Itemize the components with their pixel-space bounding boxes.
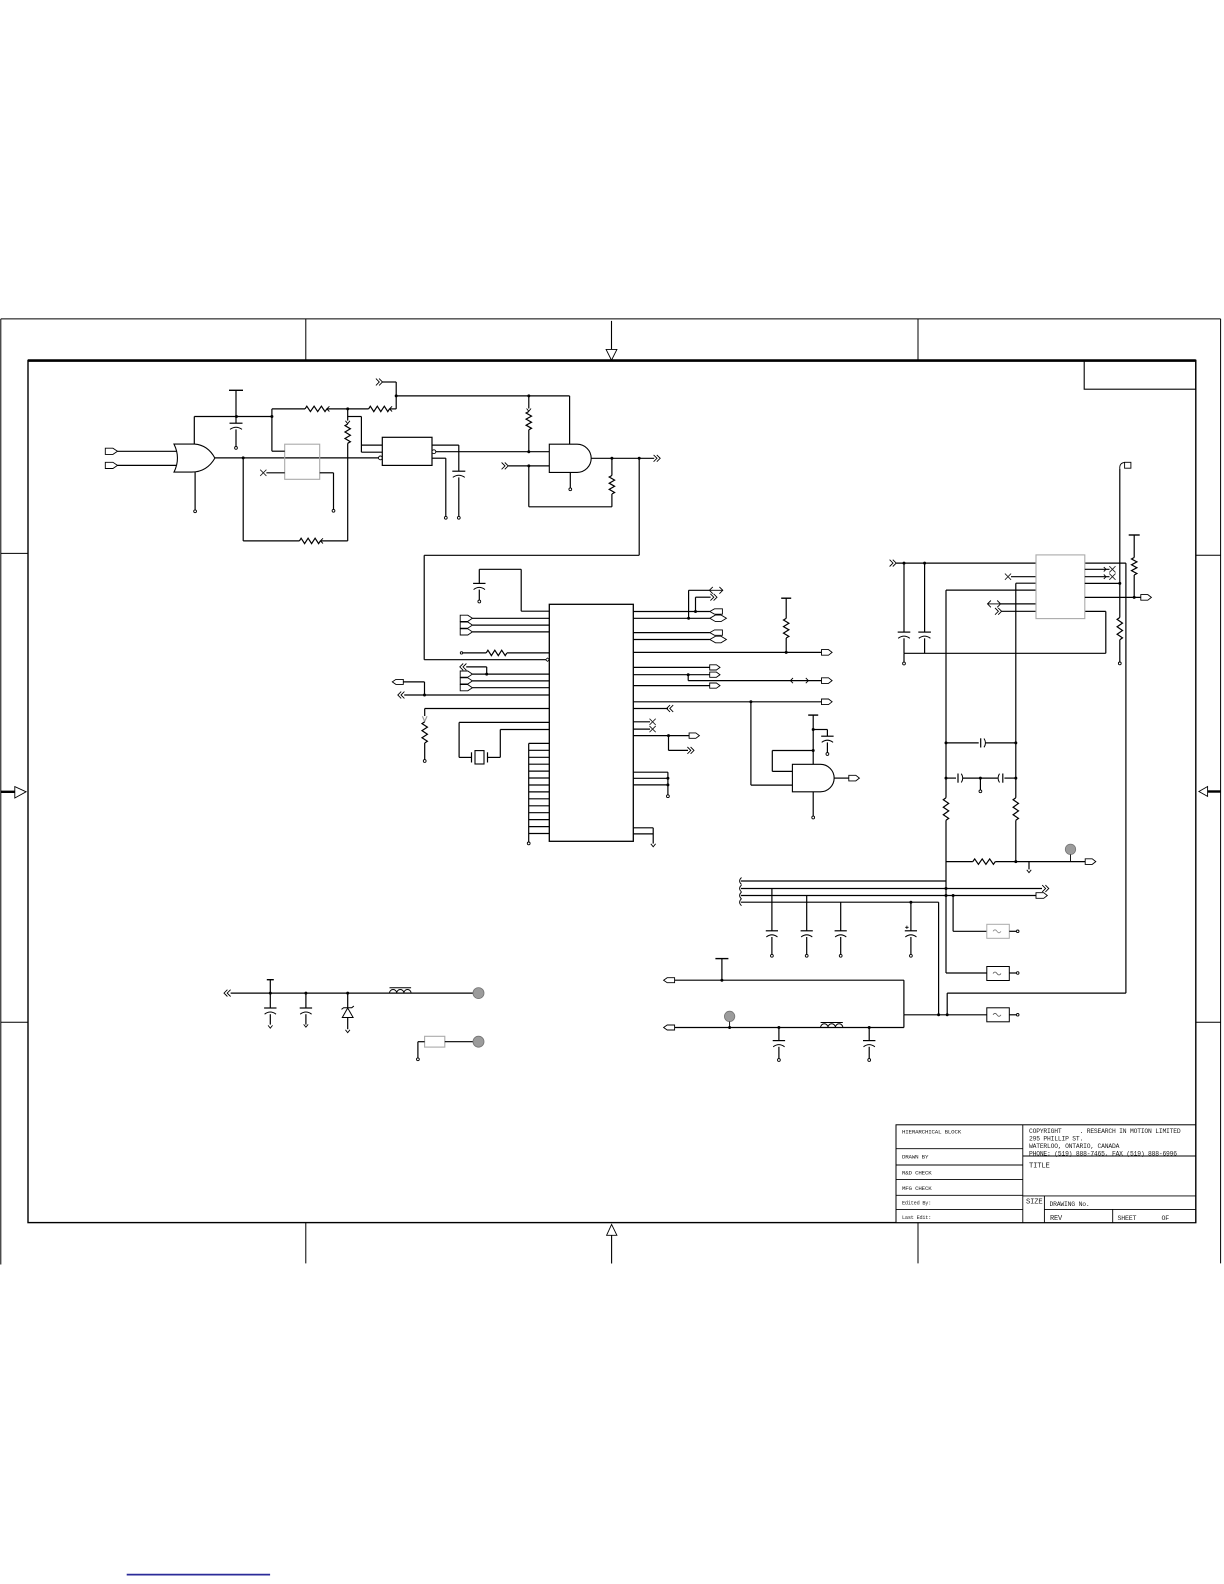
wire U7 r597 bbox=[1085, 596, 1141, 598]
ic U5 bbox=[549, 604, 633, 841]
svg-text:Edited By:: Edited By: bbox=[902, 1200, 931, 1206]
svg-text:R&D CHECK: R&D CHECK bbox=[902, 1170, 932, 1177]
label title bbox=[1029, 1162, 1050, 1170]
testpoint TP2 bbox=[724, 1011, 734, 1027]
wire F1filter in bbox=[953, 896, 987, 932]
crystal Y1 bbox=[472, 751, 488, 764]
svg-text:SHEET: SHEET bbox=[1118, 1215, 1137, 1222]
and-gate U4 bbox=[549, 444, 591, 472]
bubble U3 output bbox=[432, 450, 436, 454]
capacitor C11 bbox=[801, 896, 813, 958]
wire join772 bus bbox=[667, 772, 669, 795]
port arrow P14 bbox=[224, 990, 231, 997]
connector K3 bbox=[710, 630, 723, 635]
svg-text:OF: OF bbox=[1162, 1215, 1170, 1222]
wire C5 C6 bottom bbox=[904, 638, 925, 653]
wire V3 down bbox=[1015, 583, 1017, 798]
label rev bbox=[1050, 1215, 1063, 1223]
node main output bbox=[242, 456, 245, 459]
testpoint TP1 bbox=[1065, 844, 1075, 862]
border tick top-left bbox=[305, 319, 307, 360]
node C15 tap bbox=[304, 992, 307, 995]
wire row 1014 bbox=[904, 1014, 987, 1016]
svg-text:SIZE: SIZE bbox=[1026, 1198, 1042, 1206]
connector flag F1 bbox=[1120, 462, 1131, 469]
wire U1 bottom stem bbox=[194, 472, 197, 513]
wire R5 arrow bbox=[320, 538, 323, 543]
resistor R4 bbox=[345, 424, 350, 443]
node pin618 tap bbox=[687, 617, 690, 620]
label drawing no bbox=[1050, 1201, 1090, 1208]
wire cap row1 b bbox=[986, 742, 1016, 744]
wire R5 to R4 bbox=[320, 540, 347, 542]
testpoint TP4 bbox=[473, 1036, 484, 1047]
wire rf row1 bbox=[675, 980, 904, 1015]
wire tap to P7 bbox=[689, 590, 710, 618]
capacitor C9 bbox=[998, 774, 1003, 783]
bubble U3 input bbox=[379, 456, 383, 460]
wire main U1 output bbox=[215, 457, 379, 459]
input connector J2 bbox=[105, 462, 117, 468]
input connector J1 bbox=[105, 448, 117, 454]
connector S1 bbox=[710, 665, 720, 670]
wire pin632 bbox=[633, 632, 710, 634]
node bus3 join bbox=[945, 894, 948, 897]
filter FL2 bbox=[987, 967, 1010, 981]
node row2 right bbox=[1014, 777, 1017, 780]
wire pin U3-in2 bbox=[361, 451, 382, 453]
node B-input bbox=[527, 464, 530, 467]
power bar VCC4 bbox=[1129, 534, 1140, 536]
wire pin735 bbox=[633, 735, 689, 737]
node TP2 join bbox=[728, 1026, 731, 1029]
label rd check bbox=[902, 1170, 932, 1177]
node cap C5 tap bbox=[903, 562, 906, 565]
connector B3 bbox=[822, 678, 833, 684]
wire R7 to IC bbox=[507, 652, 549, 654]
resistor R12 bbox=[943, 798, 948, 821]
revision box top-right bbox=[1084, 361, 1196, 389]
node join784 bbox=[666, 783, 669, 786]
wire C1 bottom stub bbox=[235, 429, 238, 449]
node join778 bbox=[666, 777, 669, 780]
wire R9 to pin652 bbox=[785, 638, 787, 652]
wire R8 stub bbox=[423, 743, 426, 762]
capacitor C16 bbox=[773, 1026, 785, 1061]
wire U3 to AND1 A bbox=[436, 451, 550, 453]
wire V4 down bbox=[945, 590, 947, 798]
wire B1 down bbox=[403, 682, 424, 695]
wire R1 arrow bbox=[327, 406, 330, 411]
node pin674 tap bbox=[687, 673, 690, 676]
wire P11 to U7 bbox=[1001, 603, 1036, 605]
wire rf row2 bbox=[675, 1015, 904, 1028]
wire U7 left pinX bbox=[1011, 576, 1036, 578]
wire P5 to IC bbox=[404, 694, 549, 696]
wire VCC1 to C1 bbox=[235, 390, 237, 423]
connector B8 bbox=[1085, 859, 1096, 865]
wire FL2 out bbox=[1009, 972, 1019, 975]
resistor R6 bbox=[609, 458, 614, 507]
node VCC5 join bbox=[720, 979, 723, 982]
diode D1 tvs bbox=[342, 993, 354, 1033]
wire U4 bottom stem bbox=[569, 472, 572, 490]
port arrow P2 bbox=[502, 463, 509, 470]
wire pin685 bbox=[633, 685, 709, 687]
node row1 left bbox=[945, 741, 948, 744]
resistor R7 bbox=[486, 650, 507, 655]
wire C3 stub bbox=[478, 590, 481, 603]
port arrow P1 bbox=[376, 379, 383, 386]
wire T to R2 bbox=[348, 408, 369, 410]
wire U7 pin583 corner bbox=[1016, 582, 1036, 584]
wire U7 r569 bbox=[1085, 567, 1110, 571]
border tick right-upper bbox=[1196, 554, 1221, 556]
wire C4 stub bbox=[826, 742, 829, 755]
filter FL1 bbox=[987, 924, 1010, 938]
connector K2 bbox=[710, 615, 727, 622]
wire C4 branch bbox=[813, 730, 827, 737]
port group PG1 bbox=[460, 615, 472, 635]
footer link line bbox=[127, 1574, 270, 1576]
wire FL3 out bbox=[1009, 1014, 1019, 1017]
wire row2 mid stub bbox=[979, 778, 982, 793]
capacitor C1 bbox=[230, 423, 243, 429]
wire VCC6 stem bbox=[269, 980, 271, 993]
wire R8 top bbox=[422, 709, 427, 722]
wire pin652 bbox=[633, 651, 821, 653]
wire U4out to IC net bbox=[424, 458, 639, 659]
capacitor C15 bbox=[300, 993, 312, 1027]
wire VCC4 to R11 bbox=[1133, 535, 1135, 558]
capacitor C13 polarized bbox=[905, 902, 917, 957]
node top net bbox=[395, 394, 398, 397]
wire PG1 pins bbox=[472, 618, 549, 632]
wire res row 861 b bbox=[995, 861, 1085, 863]
capacitor C14 bbox=[264, 993, 276, 1028]
wire U1 top stem bbox=[193, 417, 195, 445]
wire to R1 bbox=[272, 408, 305, 410]
wire xtal pin1 bbox=[459, 722, 549, 757]
node r583 join bbox=[1118, 582, 1121, 585]
port arrow P4 bbox=[460, 664, 467, 671]
page border outer bbox=[1, 319, 1221, 1265]
wire cap row1 bbox=[946, 742, 979, 744]
connector B6 bbox=[849, 775, 860, 781]
node row1014 b bbox=[946, 1013, 949, 1016]
power bar VCC5 bbox=[715, 958, 728, 960]
resistor R8 bbox=[422, 722, 427, 743]
port arrow P9 bbox=[687, 747, 694, 754]
block U7 bbox=[1036, 555, 1085, 619]
center arrow top bbox=[606, 321, 617, 360]
node C4 tap bbox=[812, 728, 815, 731]
node R3 tap bbox=[527, 394, 530, 397]
svg-text:WATERLOO, ONTARIO, CANADA: WATERLOO, ONTARIO, CANADA bbox=[1029, 1143, 1120, 1150]
wire U7 r583 bbox=[1085, 582, 1120, 584]
wire U6 loop bbox=[772, 751, 813, 772]
node bus3 f1tap bbox=[952, 894, 955, 897]
capacitor C3 bbox=[473, 569, 485, 589]
node row2 mid bbox=[979, 777, 982, 780]
wire bus2 bbox=[741, 888, 1042, 890]
wire y416 stub right bbox=[348, 416, 362, 418]
connector B7 bbox=[1141, 595, 1152, 601]
wire VCC3 down bbox=[812, 715, 814, 764]
label edited by bbox=[902, 1200, 931, 1206]
port group PG2 bbox=[460, 671, 472, 691]
svg-text:TITLE: TITLE bbox=[1029, 1162, 1050, 1170]
wire PG2 pins bbox=[472, 674, 549, 688]
wire pin708r bbox=[633, 708, 668, 710]
wire R11 to r597 bbox=[1133, 575, 1135, 597]
wire U1 top to cap junction bbox=[194, 416, 272, 418]
marker arrows 680 bbox=[790, 678, 808, 683]
node T bbox=[346, 407, 349, 410]
port arrow P8 bbox=[667, 705, 674, 712]
port arrow P13 bbox=[1042, 885, 1049, 892]
title block grid bbox=[896, 1125, 1196, 1223]
wire U4 output bbox=[591, 457, 654, 459]
port arrow P3 bbox=[654, 455, 661, 462]
node D1 tap bbox=[346, 992, 349, 995]
svg-text:Last Edit:: Last Edit: bbox=[902, 1215, 931, 1221]
border tick top-right bbox=[917, 319, 919, 360]
wire R4 down to loop bbox=[347, 443, 349, 541]
bus entry arcs bbox=[740, 878, 742, 906]
inductor L1 bbox=[390, 988, 412, 993]
connector B5 bbox=[689, 733, 699, 738]
capacitor C17 bbox=[863, 1026, 875, 1061]
wire gnd stub circle bbox=[903, 653, 906, 665]
node bus4 captap bbox=[909, 901, 912, 904]
svg-text:295 PHILLIP ST.: 295 PHILLIP ST. bbox=[1029, 1135, 1083, 1142]
wire junction up bbox=[271, 409, 273, 417]
node U4 out R6 bbox=[610, 457, 613, 460]
stub circle 772 bbox=[667, 795, 670, 798]
center arrow right bbox=[1199, 787, 1221, 797]
wire to R7 bbox=[463, 652, 487, 654]
wire xtal pin2 bbox=[488, 730, 550, 758]
wire bus4 down bbox=[938, 902, 940, 1015]
node pin735 tap bbox=[667, 734, 670, 737]
svg-text:MFG CHECK: MFG CHECK bbox=[902, 1185, 932, 1192]
resistor R3 bbox=[526, 412, 531, 430]
wire ladder bus bbox=[527, 743, 530, 844]
wire P2 to AND1 B bbox=[508, 465, 549, 467]
wire FL1 out bbox=[1009, 930, 1019, 933]
label mfg check bbox=[902, 1185, 932, 1192]
wire pin674 bbox=[633, 674, 709, 676]
center arrow left bbox=[1, 787, 26, 798]
wire diamond to IC bbox=[548, 659, 550, 661]
node loop junction bbox=[270, 415, 273, 418]
wire pin639 bbox=[633, 639, 710, 641]
wire stub down bbox=[360, 417, 362, 453]
node pin701 tap bbox=[749, 700, 752, 703]
no-connect X2 bbox=[650, 719, 656, 725]
power bar VCC2 bbox=[781, 597, 791, 599]
label drawn by bbox=[902, 1154, 929, 1161]
wire rf main bbox=[231, 992, 474, 994]
wire R13 down bbox=[1015, 820, 1017, 861]
connector S3 bbox=[710, 683, 720, 688]
testpoint TP3 bbox=[473, 988, 484, 999]
resistor R15 bbox=[425, 1036, 445, 1047]
and-gate U6 bbox=[792, 764, 834, 792]
wire pins 772-785 bbox=[633, 772, 668, 785]
wire J2 to OR gate bbox=[118, 464, 179, 466]
net stub circle bbox=[460, 652, 462, 654]
block U3 bbox=[382, 437, 432, 465]
svg-text:PHONE: (519) 888-7465, FAX (51: PHONE: (519) 888-7465, FAX (519) 888-699… bbox=[1029, 1150, 1177, 1157]
wire U3 out3 down bbox=[432, 458, 447, 519]
wire R2 to corner bbox=[390, 408, 397, 410]
wire R1 to node T bbox=[327, 408, 348, 410]
no-connect X5 bbox=[1109, 566, 1115, 572]
capacitor C4 bbox=[821, 736, 833, 742]
capacitor C5 bbox=[898, 563, 911, 638]
wire J1 to OR gate bbox=[118, 450, 179, 452]
label of bbox=[1162, 1215, 1170, 1222]
wire top net 563 bbox=[896, 562, 1126, 564]
wire pin611 bbox=[633, 611, 710, 613]
border tick right-lower bbox=[1196, 1021, 1221, 1023]
connector S2 bbox=[710, 672, 720, 677]
connector BL1 bbox=[664, 978, 675, 983]
label copyright bbox=[1029, 1128, 1181, 1158]
node P4 join bbox=[485, 673, 488, 676]
resistor R13 bbox=[1013, 798, 1018, 821]
or-gate U1 bbox=[174, 444, 215, 472]
resistor R9 bbox=[784, 618, 789, 638]
wire feedback left bbox=[243, 458, 299, 541]
wire R3 top bbox=[527, 396, 531, 411]
port arrow P11 bbox=[988, 601, 1001, 608]
wire gnd stub 1029 bbox=[1027, 862, 1031, 873]
wire pin701 bbox=[633, 701, 821, 703]
label last edit bbox=[902, 1215, 931, 1221]
wire pin729 bbox=[633, 728, 650, 730]
node r597 join bbox=[1133, 596, 1136, 599]
port arrow P7 bbox=[709, 587, 722, 594]
svg-text:DRAWN BY: DRAWN BY bbox=[902, 1154, 929, 1161]
wire VCC5 stem bbox=[721, 959, 723, 981]
wire U6 bottom stem bbox=[812, 792, 815, 819]
svg-text:DRAWING No.: DRAWING No. bbox=[1050, 1201, 1090, 1208]
capacitor C10 bbox=[766, 889, 778, 958]
svg-text:REV: REV bbox=[1050, 1215, 1063, 1223]
wire R6 feedback bbox=[529, 466, 612, 507]
wire R12 down bbox=[946, 820, 987, 973]
wire ladder pins bbox=[529, 743, 550, 833]
wire U3 out1 to C2 bbox=[432, 445, 459, 471]
label hierarchical block bbox=[902, 1129, 962, 1136]
power bar VCC6 bbox=[267, 979, 274, 981]
svg-text:COPYRIGHT . RESEARCH IN MO: COPYRIGHT . RESEARCH IN MOTION LIMITED bbox=[1029, 1128, 1181, 1135]
connector BL2 bbox=[664, 1025, 675, 1030]
resistor R14 bbox=[973, 859, 996, 864]
node A-input bbox=[527, 450, 530, 453]
wire pin667 bbox=[633, 666, 709, 668]
wire loop up to U7 bbox=[1085, 611, 1106, 653]
wire X1 to U2 bbox=[266, 472, 284, 474]
capacitor C12 bbox=[835, 902, 847, 957]
wire R10 stub bbox=[1118, 640, 1121, 665]
node bus2 join bbox=[945, 887, 948, 890]
power bar VCC3 bbox=[808, 714, 818, 716]
node row2 left bbox=[945, 777, 948, 780]
wire corner up to port bbox=[383, 382, 397, 409]
connector K4 bbox=[710, 636, 727, 643]
wire cap row2 mid bbox=[963, 777, 998, 779]
wire P12 to U7 bbox=[1002, 610, 1036, 612]
drawing frame inner bbox=[28, 360, 1196, 1222]
center arrow bottom bbox=[607, 1224, 617, 1263]
port arrow P6 bbox=[710, 594, 717, 601]
wire pin618 bbox=[633, 617, 710, 619]
node pin611 tap bbox=[694, 610, 697, 613]
wire gnd row 653 bbox=[904, 652, 1106, 654]
wire U7 r576 bbox=[1085, 575, 1110, 579]
wire cap row2 a bbox=[946, 777, 956, 779]
port arrow P12 bbox=[995, 608, 1002, 615]
wire V2 vertical bbox=[947, 563, 1126, 1015]
wire U6 output bbox=[834, 777, 849, 779]
connector B2 bbox=[822, 650, 833, 656]
wire pin U3-in1 bbox=[361, 444, 382, 446]
no-connect X1 bbox=[260, 470, 266, 476]
label sheet bbox=[1118, 1215, 1137, 1222]
node cap C6 tap bbox=[923, 562, 926, 565]
connector K1 bbox=[710, 609, 723, 614]
resistor R2 bbox=[369, 406, 390, 411]
connector B1 bbox=[392, 679, 403, 684]
wire pin 708 net bbox=[425, 708, 550, 710]
capacitor C7 bbox=[981, 738, 986, 747]
wire R2 arrow bbox=[390, 406, 393, 411]
node pin652 R9 bbox=[785, 651, 788, 654]
port arrow P10 bbox=[890, 560, 897, 567]
wire C2 stub bbox=[457, 477, 460, 519]
wire cap net top bbox=[479, 569, 549, 611]
wire pins 827-833 bbox=[633, 828, 653, 844]
border tick bottom-right bbox=[917, 1223, 919, 1264]
node U6 loop bbox=[812, 749, 815, 752]
resistor R1 bbox=[305, 406, 327, 411]
wire junction to U2 pin bbox=[272, 417, 285, 452]
capacitor C2 bbox=[452, 471, 465, 477]
wire bus1 bbox=[741, 880, 946, 882]
node U4 out down bbox=[638, 457, 641, 460]
marker down arrow bbox=[651, 844, 656, 847]
wire tap735 down bbox=[669, 736, 689, 751]
connector B9 bbox=[1036, 893, 1047, 899]
no-connect X3 bbox=[650, 726, 656, 732]
resistor R10 bbox=[1117, 618, 1122, 640]
port arrow P5 bbox=[398, 692, 405, 699]
wire U7 pin590 corner bbox=[946, 589, 1036, 591]
wire bus3 bbox=[741, 895, 1036, 897]
no-connect X4 bbox=[1005, 574, 1011, 580]
wire VCC2 to R9 bbox=[785, 598, 787, 618]
wire tap701 to AND2 bbox=[751, 702, 793, 785]
wire R15 right bbox=[445, 1041, 473, 1043]
marker diamond bbox=[546, 658, 550, 661]
wire U2 right pin down bbox=[320, 473, 335, 512]
wire cap row2 b bbox=[1004, 777, 1015, 779]
node row1 right bbox=[1014, 741, 1017, 744]
